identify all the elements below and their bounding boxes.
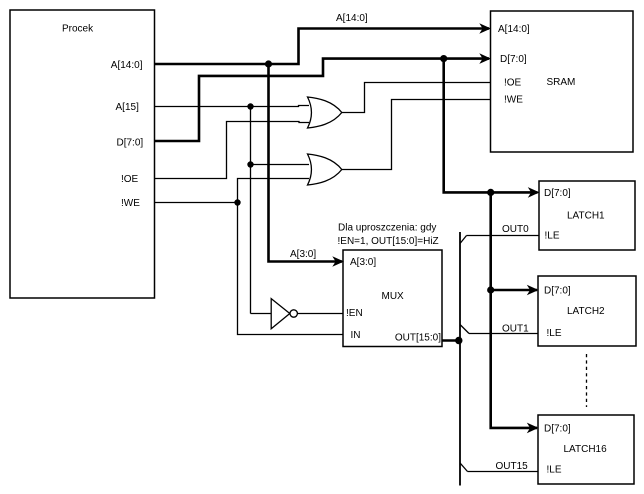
arrowhead into LATCH16 D[7:0] bbox=[527, 423, 539, 434]
wire A[3:0] branch down to MUX bbox=[269, 64, 343, 262]
arrowhead into SRAM A[14:0] bbox=[479, 23, 491, 34]
label net OUT0 bbox=[502, 224, 529, 235]
wire D bus down to LATCH16 bbox=[491, 290, 537, 428]
wire OUT bus vertical bbox=[459, 232, 461, 486]
svg-text:LATCH16: LATCH16 bbox=[564, 444, 608, 455]
label net OUT1 bbox=[502, 324, 529, 335]
wire D[7:0] from Procek to SRAM bbox=[155, 59, 490, 141]
svg-text:!EN=1, OUT[15:0]=HiZ: !EN=1, OUT[15:0]=HiZ bbox=[338, 236, 439, 247]
arrowhead into LATCH2 D[7:0] bbox=[527, 285, 539, 296]
wire OUT0 to LATCH1 !LE bbox=[467, 235, 540, 237]
box LATCH1 bbox=[539, 181, 635, 250]
svg-text:SRAM: SRAM bbox=[547, 77, 576, 88]
svg-text:IN: IN bbox=[351, 330, 361, 341]
svg-text:!LE: !LE bbox=[547, 328, 562, 339]
dashed continuation line between LATCH2 and LATCH16 bbox=[586, 354, 588, 407]
wire !WE from Procek bbox=[155, 202, 238, 204]
or-gate U4 (A[15], !WE -> SRAM !WE) bbox=[308, 154, 342, 185]
wire A[15] to OR2 top input bbox=[251, 164, 310, 166]
wire OUT1 to LATCH2 !LE bbox=[469, 333, 538, 335]
bus tap slash OUT1 bbox=[460, 325, 469, 334]
wire OUT15 to LATCH16 !LE bbox=[468, 471, 539, 473]
or-gate U1 (A[15], !OE -> SRAM !OE) bbox=[308, 97, 342, 128]
wire A[15] to inverter input bbox=[251, 313, 273, 315]
junction node D bus at LATCH2 bbox=[487, 286, 494, 293]
junction node A[15] at OR2 input bbox=[247, 161, 253, 167]
svg-text:OUT15: OUT15 bbox=[496, 461, 529, 472]
arrowhead into SRAM D[7:0] bbox=[479, 53, 491, 64]
svg-text:OUT[15:0]: OUT[15:0] bbox=[395, 333, 441, 344]
wire !OE to OR1 bottom input bbox=[155, 122, 310, 179]
junction node !WE wire bbox=[234, 199, 240, 205]
wire OR2 output to SRAM !WE bbox=[340, 100, 491, 170]
svg-text:D[7:0]: D[7:0] bbox=[544, 188, 571, 199]
box LATCH2 bbox=[538, 276, 636, 346]
note text line 1 bbox=[338, 223, 436, 234]
junction node MUX OUT at bus bbox=[455, 337, 462, 344]
svg-text:D[7:0]: D[7:0] bbox=[117, 137, 144, 148]
label net A[3:0] bbox=[290, 249, 316, 260]
inverter U5 (A[15] -> MUX !EN) bbox=[271, 299, 297, 329]
box MUX U3 bbox=[343, 250, 442, 347]
box LATCH16 bbox=[538, 415, 634, 484]
svg-text:A[14:0]: A[14:0] bbox=[498, 24, 530, 35]
svg-text:A[3:0]: A[3:0] bbox=[290, 249, 316, 260]
svg-text:A[14:0]: A[14:0] bbox=[336, 13, 368, 24]
wire inverter output to MUX !EN bbox=[297, 313, 343, 315]
arrowhead into LATCH1 D[7:0] bbox=[528, 187, 540, 198]
wire D bus down to LATCH1 bbox=[444, 59, 538, 193]
svg-text:Procek: Procek bbox=[62, 24, 94, 35]
wire MUX OUT[15:0] to bus bbox=[442, 339, 461, 342]
svg-text:A[15]: A[15] bbox=[116, 102, 140, 113]
svg-text:OUT1: OUT1 bbox=[502, 324, 529, 335]
svg-text:!OE: !OE bbox=[504, 78, 522, 89]
svg-text:!EN: !EN bbox=[346, 308, 363, 319]
svg-text:D[7:0]: D[7:0] bbox=[544, 286, 571, 297]
svg-text:!OE: !OE bbox=[121, 174, 139, 185]
svg-text:A[14:0]: A[14:0] bbox=[111, 60, 143, 71]
wire D bus down to LATCH2 bbox=[491, 192, 537, 290]
junction node D bus at LATCH1 bbox=[487, 189, 494, 196]
junction node D[7:0] at SRAM branch bbox=[440, 55, 447, 62]
wire A[15] vertical branch bbox=[250, 107, 252, 314]
svg-text:!WE: !WE bbox=[504, 95, 523, 106]
wire OR1 output to SRAM !OE bbox=[340, 83, 491, 113]
svg-text:MUX: MUX bbox=[382, 291, 405, 302]
svg-text:D[7:0]: D[7:0] bbox=[500, 54, 527, 65]
svg-text:!LE: !LE bbox=[545, 231, 560, 242]
label net OUT15 bbox=[496, 461, 529, 472]
note text line 2 bbox=[338, 236, 439, 247]
junction node A[14:0]/A[3:0] bbox=[265, 60, 272, 67]
bus tap slash OUT15 bbox=[460, 463, 468, 472]
svg-text:!LE: !LE bbox=[547, 465, 562, 476]
svg-text:D[7:0]: D[7:0] bbox=[544, 424, 571, 435]
box Procek (CPU) bbox=[10, 10, 155, 298]
bus tap slash OUT0 bbox=[460, 236, 467, 244]
svg-text:Dla uproszczenia: gdy: Dla uproszczenia: gdy bbox=[338, 223, 436, 234]
wire !WE to OR2 bottom input bbox=[238, 179, 310, 203]
label net A[14:0] bbox=[336, 13, 368, 24]
arrowhead into MUX A[3:0] bbox=[332, 256, 344, 267]
svg-text:LATCH2: LATCH2 bbox=[567, 306, 605, 317]
svg-text:LATCH1: LATCH1 bbox=[567, 211, 605, 222]
wire A[14:0] from Procek to SRAM bbox=[155, 29, 490, 65]
svg-text:!WE: !WE bbox=[121, 198, 140, 209]
svg-text:A[3:0]: A[3:0] bbox=[350, 257, 376, 268]
wire A[15] to OR1 top input bbox=[155, 106, 310, 107]
svg-text:OUT0: OUT0 bbox=[502, 224, 529, 235]
box SRAM U2 bbox=[491, 11, 634, 152]
wire !WE down to MUX IN bbox=[238, 203, 344, 335]
junction node A[15] wire bbox=[247, 103, 253, 109]
